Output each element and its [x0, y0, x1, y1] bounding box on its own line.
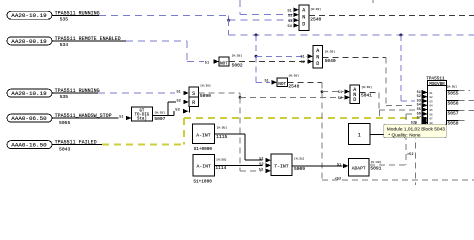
svg-text:[H:5U]: [H:5U] — [447, 85, 458, 89]
svg-text:51: 51 — [177, 91, 181, 95]
svg-text:5091: 5091 — [370, 165, 381, 171]
svg-text:02: 02 — [430, 96, 434, 99]
svg-text:A-INT: A-INT — [196, 163, 211, 169]
svg-text:5056: 5056 — [448, 101, 459, 107]
svg-text:5002: 5002 — [232, 63, 243, 69]
svg-text:53: 53 — [288, 20, 292, 24]
svg-text:* Quality: None: * Quality: None — [388, 132, 421, 138]
svg-text:53: 53 — [175, 109, 179, 113]
svg-text:[H:39]: [H:39] — [154, 110, 165, 114]
svg-text:51: 51 — [288, 10, 292, 14]
svg-text:57: 57 — [417, 117, 421, 121]
svg-text:5055: 5055 — [448, 91, 459, 97]
svg-text:03: 03 — [430, 100, 434, 103]
svg-text:5007: 5007 — [154, 116, 165, 122]
svg-text:01: 01 — [430, 92, 434, 95]
svg-text:AA20-09.19: AA20-09.19 — [11, 38, 47, 45]
svg-text:D: D — [302, 22, 305, 28]
svg-text:MSGVBR: MSGVBR — [429, 82, 445, 87]
svg-text:D: D — [316, 61, 319, 67]
svg-text:Module 1,01,02 Block 5043: Module 1,01,02 Block 5043 — [387, 126, 445, 132]
svg-text:04: 04 — [430, 105, 434, 108]
svg-text:[H:5U]: [H:5U] — [217, 126, 228, 130]
svg-text:5058: 5058 — [448, 121, 459, 127]
svg-text:<52: <52 — [335, 176, 341, 181]
svg-text:5041: 5041 — [361, 93, 372, 99]
svg-text:[H:30]: [H:30] — [325, 49, 336, 53]
svg-text:52: 52 — [300, 61, 304, 65]
svg-text:NOT: NOT — [278, 82, 286, 87]
svg-text:52: 52 — [338, 97, 342, 101]
svg-text:AAA0-06.50: AAA0-06.50 — [11, 115, 47, 122]
svg-text:5090: 5090 — [200, 93, 211, 99]
svg-text:AAA0-16.50: AAA0-16.50 — [11, 142, 47, 149]
svg-text:Sta): Sta) — [137, 117, 147, 122]
svg-text:AA20-10.19: AA20-10.19 — [11, 12, 47, 19]
svg-text:S: S — [192, 91, 195, 97]
svg-text:534: 534 — [60, 42, 69, 48]
svg-text:A-INT: A-INT — [196, 132, 211, 138]
svg-text:[H:30]: [H:30] — [288, 74, 299, 78]
svg-text:5057: 5057 — [448, 111, 459, 117]
svg-text:A: A — [302, 7, 305, 13]
svg-text:52: 52 — [177, 99, 181, 103]
svg-text:51: 51 — [300, 56, 304, 60]
svg-text:D: D — [353, 97, 356, 103]
svg-text:S1+0000: S1+0000 — [194, 147, 213, 152]
svg-text:2548: 2548 — [288, 84, 299, 90]
svg-text:[H:31]: [H:31] — [294, 157, 305, 161]
svg-text:5055: 5055 — [59, 120, 70, 126]
svg-text:S1+1000: S1+1000 — [193, 179, 212, 184]
svg-text:52: 52 — [288, 14, 292, 18]
svg-text:05: 05 — [430, 109, 434, 112]
svg-text:535: 535 — [60, 94, 69, 100]
svg-text:A: A — [316, 48, 319, 54]
svg-text:5009: 5009 — [294, 166, 305, 172]
svg-text:51: 51 — [119, 116, 123, 120]
svg-text:ADAPT: ADAPT — [352, 165, 366, 171]
svg-text:51: 51 — [338, 91, 342, 95]
svg-text:07: 07 — [430, 118, 434, 121]
svg-text:5043: 5043 — [59, 147, 70, 153]
svg-text:T-INT: T-INT — [274, 163, 289, 169]
svg-text:51: 51 — [205, 61, 209, 65]
svg-text:1: 1 — [358, 132, 361, 138]
svg-text:>52: >52 — [407, 152, 413, 157]
svg-text:NOT: NOT — [220, 61, 228, 66]
svg-text:53: 53 — [259, 168, 263, 172]
svg-text:N: N — [302, 15, 305, 21]
svg-text:5040: 5040 — [325, 58, 336, 64]
svg-text:54: 54 — [288, 25, 292, 29]
svg-text:[H:36]: [H:36] — [200, 83, 211, 87]
svg-text:51: 51 — [259, 158, 263, 162]
svg-text:[H:30]: [H:30] — [361, 85, 372, 89]
svg-text:R: R — [192, 100, 195, 106]
svg-text:51: 51 — [337, 163, 341, 167]
svg-text:1114: 1114 — [215, 165, 226, 171]
svg-text:N: N — [316, 55, 319, 61]
svg-text:[H:30]: [H:30] — [371, 160, 382, 164]
svg-text:2540: 2540 — [310, 17, 321, 23]
svg-text:52: 52 — [259, 163, 263, 167]
svg-text:06: 06 — [430, 113, 434, 116]
svg-text:[H:30]: [H:30] — [232, 53, 243, 57]
svg-text:51: 51 — [265, 80, 269, 84]
svg-text:535: 535 — [60, 16, 69, 22]
svg-text:1115: 1115 — [216, 134, 227, 140]
svg-text:[H:5U]: [H:5U] — [216, 158, 227, 162]
svg-text:[H:30]: [H:30] — [310, 7, 321, 11]
svg-text:AA20-10.19: AA20-10.19 — [11, 90, 47, 97]
